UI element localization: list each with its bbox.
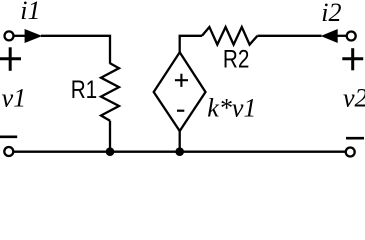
resistor R1 bbox=[101, 63, 119, 120]
current arrow i2 bbox=[321, 29, 338, 43]
terminal: port 2 bottom bbox=[346, 148, 355, 157]
terminal: port 1 top bbox=[5, 31, 14, 40]
wire bbox=[41, 36, 110, 64]
svg-text:v1: v1 bbox=[2, 84, 27, 113]
wire bbox=[109, 121, 111, 152]
plus sign port 1 bbox=[0, 57, 21, 60]
svg-text:i1: i1 bbox=[20, 0, 40, 25]
svg-text:R1: R1 bbox=[71, 75, 98, 103]
junction node bbox=[175, 147, 184, 156]
wire bbox=[257, 35, 321, 37]
svg-text:R2: R2 bbox=[223, 45, 250, 73]
dependent source k*v1 (diamond) bbox=[154, 52, 206, 131]
plus sign port 2 bbox=[342, 57, 363, 60]
svg-text:k*v1: k*v1 bbox=[207, 93, 256, 122]
svg-text:v2: v2 bbox=[343, 84, 365, 113]
plus sign inside source bbox=[175, 79, 188, 81]
junction node bbox=[106, 147, 115, 156]
wire bbox=[338, 35, 347, 37]
minus sign port 2 bbox=[346, 137, 364, 140]
wire bbox=[179, 131, 181, 152]
minus sign port 1 bbox=[0, 135, 17, 138]
current arrow i1 bbox=[25, 29, 43, 43]
bottom wire bbox=[13, 151, 346, 153]
terminal: port 1 bottom bbox=[4, 147, 13, 156]
wire bbox=[14, 35, 26, 37]
svg-text:i2: i2 bbox=[321, 0, 341, 27]
wire bbox=[180, 36, 202, 53]
resistor R2 bbox=[202, 27, 257, 45]
minus sign inside source bbox=[177, 110, 184, 112]
terminal: port 2 top bbox=[347, 32, 356, 41]
